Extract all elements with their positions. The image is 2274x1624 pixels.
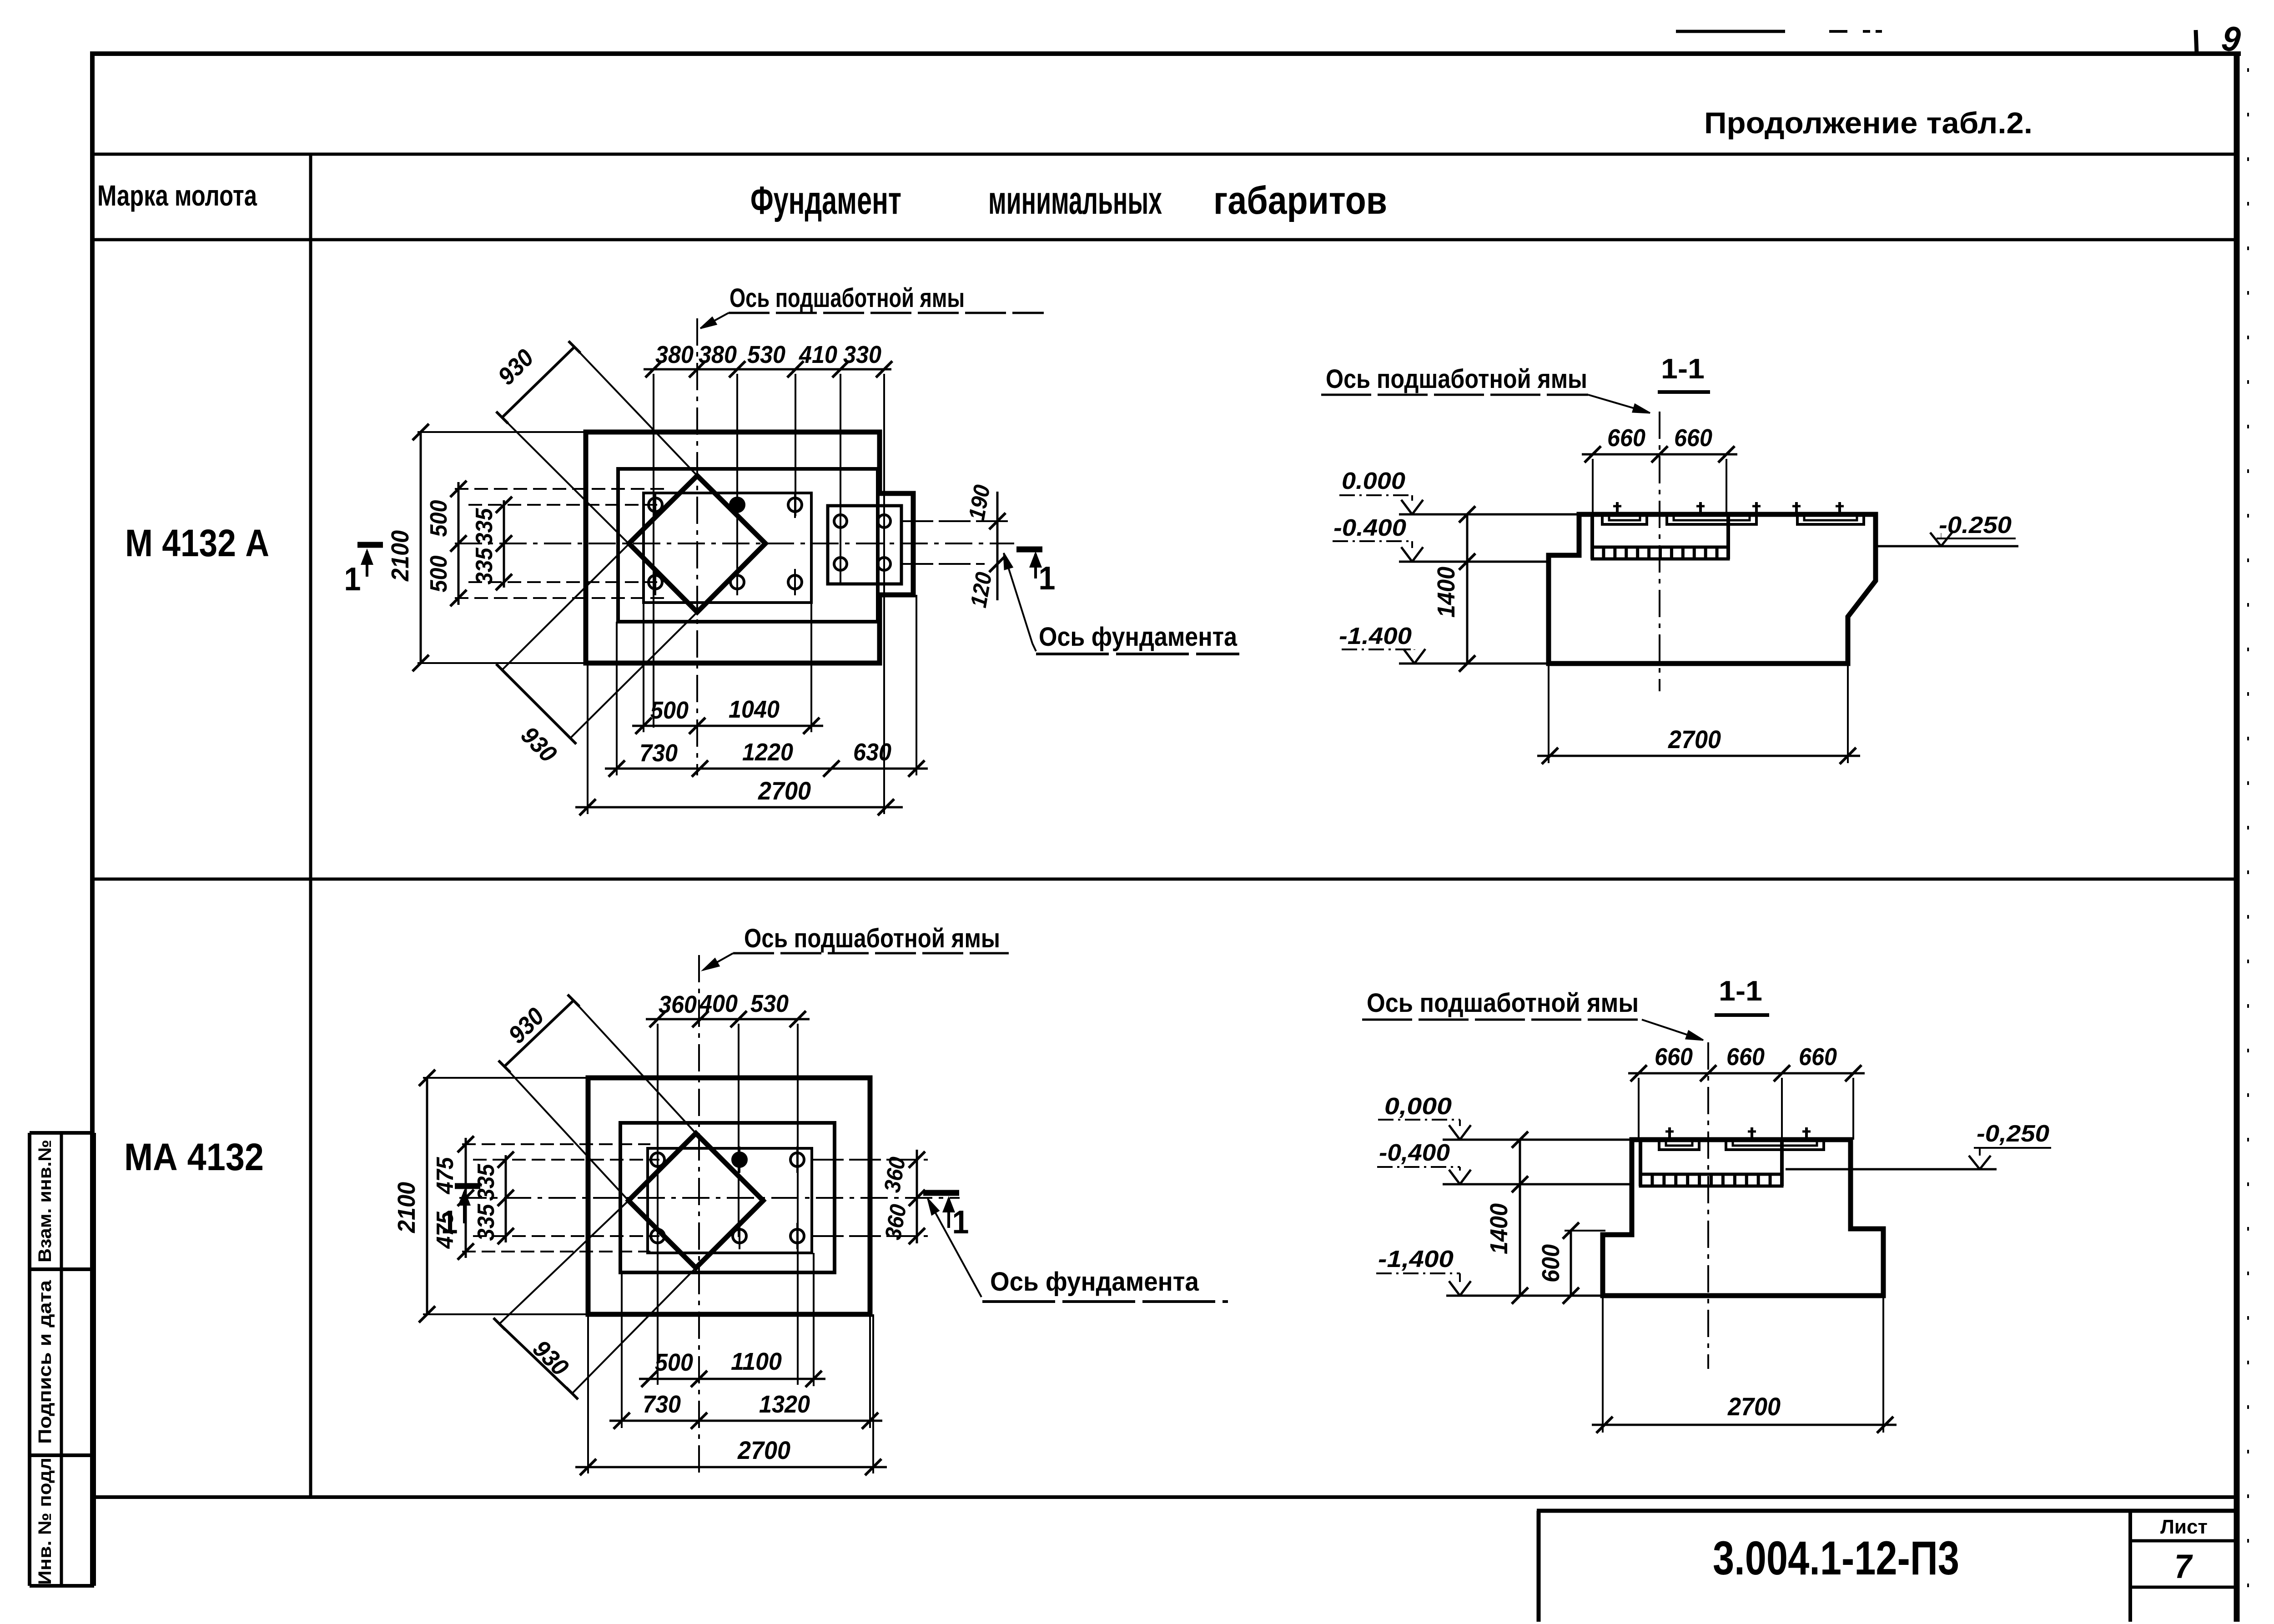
svg-text:2700: 2700 [1668,725,1721,754]
plan2 dim 2100 (left) [426,1078,428,1314]
section2 dim 600 [1570,1231,1572,1296]
column divider [309,154,312,1497]
svg-text:660: 660 [1799,1043,1837,1071]
plan2 bolts [651,1153,664,1166]
svg-text:3.004.1-12-П3: 3.004.1-12-П3 [1713,1532,1959,1585]
svg-text:1: 1 [344,561,361,598]
section1 dim 660 660 [1582,453,1737,456]
section2 top tray recess 1 [1659,1140,1699,1150]
section2 dim 2700 [1592,1424,1897,1426]
section1 dim 2700 [1537,755,1860,757]
svg-text:Фундамент: Фундамент [750,179,901,222]
plan1 anvil diamond [629,476,765,612]
svg-text:М 4132 А: М 4132 А [125,522,269,564]
title block cell line [2130,1586,2238,1589]
svg-text:500: 500 [426,555,452,592]
svg-text:335: 335 [471,508,498,545]
svg-text:0.000: 0.000 [1342,468,1405,494]
svg-text:1: 1 [1039,560,1056,597]
plan1 bolts [649,498,662,512]
plan2 dim 2700 [575,1466,887,1468]
svg-text:500: 500 [426,500,452,537]
section1 pit walls [1590,514,1594,559]
svg-text:500: 500 [655,1349,693,1376]
plan2 dim 335 335 (left) [505,1155,507,1242]
plan1 top extension lines [653,374,654,728]
section2 brick band [1640,1174,1782,1186]
plan2 dim 475 475 (left) [465,1138,467,1258]
stamp bottom line [30,1584,94,1588]
row divider [92,878,2238,881]
plan2 anvil diamond [629,1133,763,1268]
top scan dash marks [1676,30,1785,33]
svg-text:Подпись и дата: Подпись и дата [35,1280,55,1444]
page number tick [2196,30,2197,54]
svg-text:1220: 1220 [742,739,793,766]
title block left edge [1537,1511,1541,1622]
sheet frame top edge [90,51,2241,56]
svg-text:2100: 2100 [387,530,414,582]
svg-text:380: 380 [655,341,694,368]
section1 level line -0.250 [1876,545,2018,548]
header row bottom line [92,238,2238,241]
title block top line [1537,1509,2238,1513]
svg-text:530: 530 [750,990,789,1017]
section2 pit walls [1639,1140,1642,1186]
svg-text:530: 530 [747,341,785,368]
svg-text:Ось подшаботной ямы: Ось подшаботной ямы [744,924,1000,953]
section1 vertical axis [1659,412,1660,691]
section2 foundation profile [1603,1140,1883,1296]
svg-text:-0.400: -0.400 [1333,515,1406,541]
svg-text:минимальных: минимальных [988,179,1162,222]
section1 anchor bolt ticks [1616,502,1619,514]
section2 level line -0.250 [1786,1168,1997,1171]
section1 brick band (pad) [1592,547,1728,559]
svg-text:1: 1 [441,1204,458,1241]
plan2 label Ось фундамента [928,1199,981,1297]
table bottom line [94,1495,2238,1499]
header band bottom line [92,153,2238,156]
svg-text:1-1: 1-1 [1661,353,1705,385]
plan1 group bolts [834,515,847,528]
svg-text:Ось подшаботной ямы: Ось подшаботной ямы [729,283,965,313]
plan2 dim 730 1320 [609,1420,882,1422]
plan1 930 upper extension to diamond [574,347,697,476]
section2 level line -1.400 [1446,1295,1603,1297]
plan1 930 lower extension to diamond [502,544,629,670]
plan2 dim 930 lower diagonal [499,1324,572,1393]
svg-text:Ось подшаботной ямы: Ось подшаботной ямы [1326,364,1587,394]
plan1 bolt group rectangle [828,506,901,584]
svg-text:1100: 1100 [731,1348,782,1375]
svg-text:1400: 1400 [1433,567,1460,618]
svg-text:2100: 2100 [393,1182,420,1233]
section2 level line -0.400 [1443,1183,1633,1186]
sheet frame right edge [2234,54,2240,1622]
plan2 vertical axis [698,955,700,1478]
plan1 label Ось фундамента [1004,553,1032,644]
section1 top tray recess 1 [1602,514,1647,524]
plan1 horizontal axis (Ось фундамента) [455,543,1014,544]
stamp divider 1 [30,1267,94,1271]
section1 top tray recess 2 [1667,514,1756,524]
stamp divider 2 [30,1453,94,1457]
section1 level line -1.400 [1399,663,1549,665]
svg-text:360: 360 [659,991,697,1018]
plan1 dim 500 500 (left) [458,482,460,605]
plan2 top extension lines [657,1024,659,1385]
svg-text:730: 730 [639,739,678,767]
plan2 horizontal axis [459,1197,960,1199]
svg-text:1: 1 [952,1204,969,1241]
section1 level line 0.000 [1399,513,1579,516]
plan2 pit rectangle [620,1123,835,1272]
svg-text:-0,250: -0,250 [1977,1121,2049,1147]
svg-text:Ось подшаботной ямы: Ось подшаботной ямы [1367,988,1639,1018]
plan1 vertical axis (Ось подшаботной ямы) [696,318,698,775]
plan2 foundation outline [588,1078,870,1314]
svg-text:660: 660 [1607,424,1645,452]
svg-text:1040: 1040 [729,696,780,723]
plan1 section mark right [1016,547,1042,553]
stamp outer left edge [28,1133,31,1586]
section2 dim 660 660 660 [1628,1072,1865,1075]
plan1 dim 335 335 (left) [503,500,505,588]
svg-text:730: 730 [643,1391,681,1418]
plan1 dim 730 1220 630 [605,768,928,770]
plan1 dim 2700 [575,806,903,809]
svg-text:габаритов: габаритов [1213,179,1387,222]
plan1 foundation outline [586,432,913,663]
plan2 anchor plate rectangle [648,1148,812,1253]
svg-text:1320: 1320 [759,1391,810,1418]
plan1 dim 930 upper diagonal [502,347,574,417]
plan2 left extension dash lines [462,1143,650,1145]
svg-text:Взам. инв.№: Взам. инв.№ [35,1140,55,1262]
plan1 right dim 190 120 [996,492,999,600]
svg-text:Марка молота: Марка молота [97,179,257,212]
svg-text:475: 475 [432,1156,458,1194]
plan2 930 upper extensions [574,1001,696,1133]
svg-text:Ось фундамента: Ось фундамента [990,1267,1199,1297]
svg-text:630: 630 [853,739,891,766]
svg-text:1-1: 1-1 [1719,975,1762,1007]
svg-text:380: 380 [699,341,737,368]
section2 anchor bolt ticks [1668,1127,1671,1140]
plan2 dim 500 1100 [639,1378,825,1380]
svg-text:660: 660 [1726,1043,1765,1071]
stamp right edge (frame) [92,1133,96,1586]
plan2 right bolt row lines [812,1159,928,1161]
svg-text:660: 660 [1655,1043,1693,1071]
svg-text:500: 500 [650,697,689,724]
svg-text:0,000: 0,000 [1384,1093,1452,1120]
stamp inner divider [60,1133,63,1586]
svg-text:335: 335 [471,547,498,584]
svg-text:1400: 1400 [1485,1203,1513,1254]
title block Лист divider [2128,1511,2132,1622]
svg-text:2700: 2700 [1727,1392,1781,1421]
plan2 dim 930 upper diagonal [504,1001,574,1066]
svg-text:600: 600 [1537,1244,1565,1282]
plan1 pit rectangle [618,469,878,622]
plan1 dim 930 lower diagonal [502,670,570,738]
section1 dim 1400 [1466,514,1469,664]
plan1 dim 500 1040 [632,725,823,727]
svg-text:330: 330 [843,341,881,368]
title block Лист underline [2130,1539,2238,1543]
plan1 left extension dash lines [455,488,664,490]
sheet frame left edge [90,51,95,1586]
svg-text:660: 660 [1674,424,1712,452]
plan2 930 lower extensions [499,1201,629,1324]
svg-text:410: 410 [799,341,837,368]
plan2 right dim 360 360 [916,1150,918,1243]
plan2 top dimension line 360 400 530 [646,1018,810,1021]
plan1 anchor plate rectangle [644,493,811,603]
svg-text:МА 4132: МА 4132 [124,1136,264,1178]
plan2 section mark left [455,1183,480,1189]
svg-text:7: 7 [2174,1548,2194,1585]
plan1 top dimension line 380 380 530 410 330 [644,368,891,371]
section2 dim 1400 [1519,1140,1521,1296]
svg-text:Лист: Лист [2160,1516,2208,1538]
section2 level line 0.000 [1443,1139,1632,1141]
section2 vertical axis [1707,1042,1709,1369]
svg-text:Продолжение табл.2.: Продолжение табл.2. [1704,106,2033,140]
plan1 section mark left [357,542,383,548]
section1 top tray recess 3 [1797,514,1864,524]
section1 level line -0.400 [1399,561,1549,563]
svg-text:2700: 2700 [758,776,811,805]
svg-text:2700: 2700 [737,1436,790,1464]
svg-text:-1.400: -1.400 [1339,623,1412,649]
plan1 dim 2100 (left) [420,432,422,663]
svg-text:-0,400: -0,400 [1379,1140,1450,1166]
svg-text:Инв. № подл: Инв. № подл [35,1458,55,1585]
plan2 section mark right [923,1190,959,1196]
svg-text:400: 400 [699,990,738,1017]
svg-text:-1,400: -1,400 [1378,1246,1454,1272]
stamp top line [30,1131,94,1135]
plan1 right bolt row lines [901,520,1012,522]
section2 top tray recess 2 [1726,1140,1824,1150]
svg-text:335: 335 [473,1163,499,1201]
section1 foundation profile [1549,514,1876,664]
svg-text:Ось фундамента: Ось фундамента [1039,622,1238,652]
